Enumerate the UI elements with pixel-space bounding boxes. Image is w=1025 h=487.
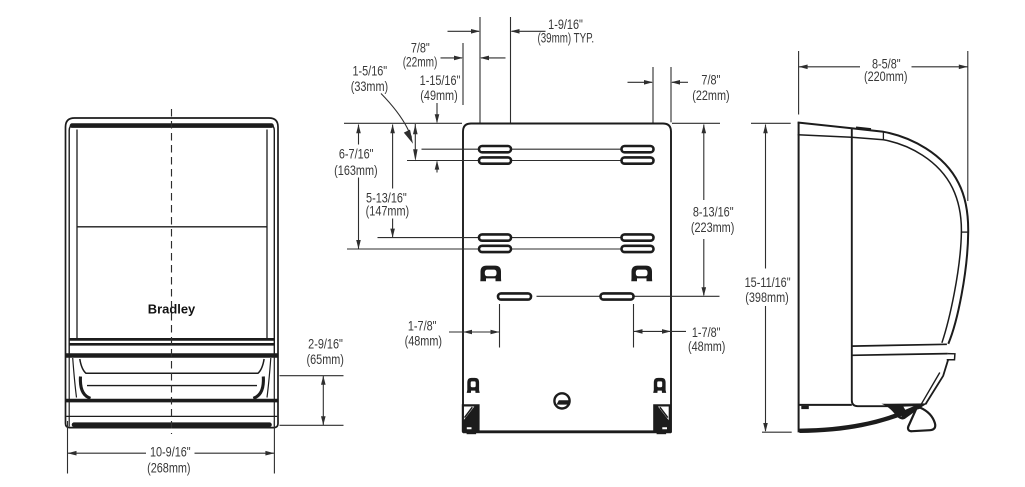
mounting slot row1b left	[479, 157, 511, 163]
keyhole tab right	[631, 266, 652, 282]
svg-text:(65mm): (65mm)	[306, 352, 343, 367]
mounting slot row2b right	[622, 246, 654, 252]
dim 1-5/16 small dimension arrows	[414, 124, 416, 150]
svg-text:(22mm): (22mm)	[692, 88, 729, 103]
dim 15-11/16 top extension line	[751, 122, 791, 124]
svg-text:(49mm): (49mm)	[420, 88, 457, 103]
side view: top tab	[856, 128, 871, 130]
svg-text:(39mm) TYP.: (39mm) TYP.	[537, 30, 594, 46]
back plate thick bottom edge	[463, 430, 671, 433]
side view: top inner edge	[798, 135, 962, 343]
side view: front notch	[947, 354, 955, 360]
bottom n-tab left	[467, 378, 480, 393]
front view: base seam line	[66, 415, 277, 417]
side view: lower front edge outer	[925, 360, 948, 405]
dim 7/8 left line and arrows	[441, 57, 463, 59]
extension line at slot row 1b	[407, 160, 622, 162]
front view: tray right hook	[253, 377, 263, 399]
dim 10-9/16 left arrow	[68, 451, 77, 456]
front view: tray left outer wall	[73, 358, 77, 398]
back plate outline	[463, 124, 671, 432]
mounting slot row1b right	[622, 157, 654, 163]
svg-text:6-7/16": 6-7/16"	[339, 147, 374, 162]
extension line x=653 (top right)	[652, 67, 654, 123]
extension line at bottom slots	[537, 295, 600, 297]
svg-text:(398mm): (398mm)	[745, 290, 788, 305]
dim 6-7/16 line	[358, 125, 360, 145]
dim 7/8 right line and arrows	[628, 81, 653, 83]
dim 10-9/16 right arrow	[265, 451, 274, 456]
corner bracket right foot	[657, 432, 667, 434]
dim 2-9/16 top extension line	[280, 375, 344, 377]
dim 1-7/8 left extension line	[499, 304, 501, 348]
svg-text:(22mm): (22mm)	[403, 54, 438, 70]
front view: inner right wall line	[266, 130, 268, 339]
front view: tray lip line	[80, 359, 264, 373]
svg-text:(48mm): (48mm)	[688, 339, 725, 354]
corner bracket left foot	[467, 432, 477, 434]
extension line at slot row 1a	[422, 148, 622, 150]
side view: back housing notch	[801, 406, 809, 409]
dim 2-9/16 dimension line	[322, 376, 324, 426]
side view: lower front edge inner	[921, 373, 940, 405]
front view: lower inner left line	[68, 358, 70, 427]
bottom slot left	[498, 293, 531, 299]
mounting slot row1a right	[622, 146, 654, 152]
side view: push lever foot	[908, 408, 935, 432]
dim 1-7/8 left line and arrows	[449, 331, 500, 333]
side view: back housing bottom edge	[799, 404, 852, 406]
side view: tray seam line lower	[852, 354, 948, 356]
center screw head	[554, 393, 569, 408]
svg-text:1-7/8": 1-7/8"	[408, 318, 437, 333]
dim 15-11/16 bottom extension line	[762, 431, 792, 433]
side view: left (wall) edge	[798, 122, 800, 432]
extension line x=480	[479, 17, 481, 123]
corner bracket right (hatched)	[653, 404, 671, 432]
mounting slot row2a left	[479, 234, 511, 240]
front view: lower inner right line	[273, 358, 275, 427]
dim 2-9/16 bottom extension line	[280, 424, 344, 426]
front view: tray inner bottom line	[87, 385, 257, 387]
extension line x=463 (top)	[462, 43, 464, 105]
svg-text:2-9/16": 2-9/16"	[308, 336, 343, 351]
keyhole tab left	[480, 266, 501, 282]
svg-text:(268mm): (268mm)	[147, 460, 190, 475]
svg-text:(48mm): (48mm)	[405, 333, 442, 348]
bottom n-tab right	[653, 378, 666, 393]
svg-text:8-13/16": 8-13/16"	[693, 204, 734, 219]
dim 8-5/8 left extension line	[798, 51, 800, 115]
dim 10-9/16 dimension line	[68, 452, 147, 454]
side view: vertical seam	[852, 128, 891, 406]
front view: thick tray bottom band	[66, 399, 279, 403]
front view: band line 1	[69, 338, 274, 341]
dim 8-5/8 dimension line	[799, 66, 860, 68]
side view: top outer edge	[798, 123, 969, 344]
dim 8-13/16 line	[703, 125, 705, 201]
side view: tray seam line upper	[852, 344, 947, 346]
dim 2-9/16 up arrow	[321, 376, 326, 385]
svg-text:(163mm): (163mm)	[334, 163, 377, 178]
front view: dispenser outer shell	[66, 118, 279, 428]
mounting slot row1a left	[479, 146, 511, 152]
extension line at slot row 2b	[347, 248, 622, 250]
extension line at slot row 2a	[378, 237, 622, 239]
front view: tray right outer wall	[267, 358, 271, 398]
front view: cover seam line	[77, 226, 267, 228]
front view: thick band above tray	[66, 353, 279, 357]
dim 5-13/16 line	[392, 125, 394, 189]
svg-text:(220mm): (220mm)	[864, 69, 907, 84]
side view: top seam tick	[882, 132, 884, 140]
plate top extension line right	[672, 122, 720, 124]
dim 8-5/8 right extension line	[967, 51, 969, 201]
dim 2-9/16 down arrow	[321, 416, 326, 425]
front view: vertical centerline	[171, 109, 173, 434]
svg-text:7/8": 7/8"	[701, 72, 720, 87]
svg-text:1-15/16": 1-15/16"	[420, 73, 461, 88]
front view: inner shell line	[69, 124, 274, 356]
corner bracket left (hatched)	[462, 404, 480, 432]
plate top extension line left	[344, 122, 462, 124]
bottom slot right	[601, 293, 634, 299]
front view: base bottom dark strip	[74, 422, 270, 427]
dim 1-9/16 line and arrows	[448, 30, 480, 32]
dim 10-9/16 right extension line	[273, 421, 275, 474]
front view: band line 2	[69, 343, 274, 346]
dim 15-11/16 dimension line	[765, 125, 767, 269]
dim 1-7/8 right extension line	[633, 304, 635, 348]
front view: tray left hook	[80, 377, 90, 399]
dim 10-9/16 left extension line	[67, 421, 69, 474]
svg-text:(147mm): (147mm)	[366, 203, 409, 218]
dim 1-15/16 up arrow	[436, 162, 438, 173]
side view: tick between curves	[961, 231, 968, 233]
dim 1-7/8 right line and arrows	[634, 330, 687, 332]
front view: thick top lip	[72, 123, 272, 128]
extension line x=510.5	[510, 17, 512, 123]
extension line x=671 (top right)	[670, 67, 672, 122]
svg-text:(33mm): (33mm)	[351, 79, 388, 94]
side view: bottom sweep curve	[799, 407, 917, 431]
mounting slot row2b left	[479, 246, 511, 252]
dim 1-5/16 leader curve	[381, 94, 412, 138]
svg-text:10-9/16": 10-9/16"	[150, 444, 191, 459]
mounting slot row2a right	[622, 234, 654, 240]
svg-text:15-11/16": 15-11/16"	[745, 275, 791, 290]
side view: lever crank (black)	[882, 403, 928, 419]
dim 1-15/16 down arrow	[436, 103, 438, 122]
front view: inner left wall line	[76, 130, 78, 339]
svg-text:1-5/16": 1-5/16"	[352, 63, 387, 78]
svg-text:(223mm): (223mm)	[691, 220, 734, 235]
